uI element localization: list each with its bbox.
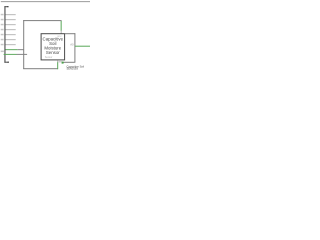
svg-text:VCC: VCC (57, 36, 62, 38)
svg-text:A0: A0 (70, 42, 74, 46)
svg-text:Sensor: Sensor (46, 50, 60, 55)
svg-text:Sensor: Sensor (45, 56, 53, 59)
svg-text:GND: GND (58, 62, 63, 64)
svg-text:SEN0193: SEN0193 (67, 67, 79, 71)
